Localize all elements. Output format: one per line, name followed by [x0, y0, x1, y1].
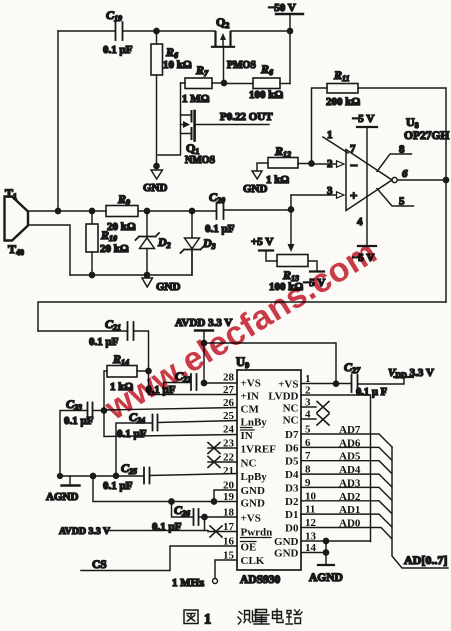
svg-text:5: 5	[399, 196, 405, 208]
output pin 6	[392, 177, 397, 182]
wire pin26 CM	[104, 408, 237, 411]
wire CLK pin15 to 1MHz	[215, 560, 237, 578]
resistor R6 10k	[156, 31, 158, 44]
node R14 left / C23	[101, 408, 106, 413]
wire left vertical from top rail to T1 node	[57, 31, 59, 211]
resistor R9 20k	[106, 206, 138, 217]
svg-text:AVDD 3.3 V: AVDD 3.3 V	[59, 526, 110, 537]
svg-text:Pwrdn: Pwrdn	[241, 527, 273, 539]
svg-text:2: 2	[305, 385, 311, 397]
wire top rail left of C19	[58, 30, 115, 32]
svg-text:AD3: AD3	[339, 477, 361, 489]
wire pin1 +VS	[301, 383, 351, 385]
svg-text:−50 V: −50 V	[268, 2, 296, 14]
caption glyph LU (road)	[286, 610, 302, 624]
AGND terminal at pins 13/14	[325, 541, 327, 565]
-5V terminal at pot	[308, 261, 317, 271]
wire pin3 jog to C20	[290, 195, 292, 210]
svg-text:20: 20	[223, 480, 235, 492]
svg-text:C26: C26	[174, 503, 190, 518]
svg-text:13: 13	[305, 531, 317, 543]
svg-text:AGND: AGND	[46, 491, 78, 503]
svg-text:18: 18	[223, 507, 235, 519]
svg-text:20 kΩ: 20 kΩ	[100, 243, 129, 255]
svg-text:R14: R14	[112, 352, 129, 367]
resistor R8 100k	[224, 83, 253, 85]
IC U9 ADS930 body	[237, 370, 301, 570]
svg-text:AD[0..7]: AD[0..7]	[404, 553, 447, 567]
svg-text:ADS930: ADS930	[240, 574, 281, 586]
svg-text:LnBy: LnBy	[241, 417, 268, 429]
svg-text:R6: R6	[165, 45, 178, 60]
svg-text:4: 4	[357, 216, 363, 228]
svg-text:C23: C23	[66, 397, 82, 412]
svg-text:+5 V: +5 V	[251, 236, 273, 248]
pin 8 lead	[377, 154, 412, 172]
svg-text:0.1 μF: 0.1 μF	[64, 415, 94, 427]
svg-text:D5: D5	[285, 456, 299, 468]
ground at bottom rail	[142, 278, 153, 287]
svg-text:D0: D0	[285, 523, 299, 535]
svg-text:C19: C19	[106, 8, 122, 23]
op-amp U8 triangle	[346, 150, 392, 211]
wire pin27 +IN	[149, 394, 238, 396]
wire AD0	[301, 528, 392, 540]
svg-text:22: 22	[223, 452, 235, 464]
svg-text:Q1: Q1	[186, 141, 199, 156]
svg-text:R7: R7	[195, 63, 209, 78]
svg-text:10 kΩ: 10 kΩ	[163, 59, 192, 71]
svg-text:D7: D7	[285, 429, 299, 441]
node R12 / R11	[309, 161, 314, 166]
node pin18/AVDD	[202, 514, 207, 519]
resistor R11 200k feedback	[327, 84, 358, 94]
svg-text:T1: T1	[5, 186, 17, 201]
svg-text:1: 1	[305, 373, 311, 385]
svg-text:AD1: AD1	[339, 504, 360, 516]
caption glyph LIANG (quantity)	[254, 610, 269, 625]
pin numbers and labels	[223, 372, 361, 562]
wire AD4	[301, 474, 392, 487]
node D3 top	[189, 208, 194, 213]
diode D2 zener	[146, 211, 148, 237]
svg-text:GND: GND	[243, 183, 268, 195]
svg-text:GND: GND	[156, 281, 181, 293]
underline LnBy pin25	[241, 427, 253, 429]
svg-text:5: 5	[305, 424, 311, 436]
watermark	[97, 230, 385, 430]
svg-text:20 kΩ: 20 kΩ	[107, 221, 136, 233]
svg-text:19: 19	[223, 491, 235, 503]
transistor Q2 PMOS	[212, 32, 234, 47]
no-connect X pin17	[208, 531, 237, 533]
svg-text:C21: C21	[105, 317, 121, 332]
svg-text:0.1 μF: 0.1 μF	[205, 223, 235, 235]
svg-text:16: 16	[223, 536, 235, 548]
svg-text:D2: D2	[285, 496, 299, 508]
svg-text:R6: R6	[260, 62, 273, 77]
capacitor C22	[204, 382, 237, 384]
node R7/R8/Q2 gate	[221, 80, 226, 85]
svg-text:17: 17	[223, 521, 235, 533]
svg-text:D2: D2	[157, 235, 171, 250]
wire to pin 2 with arrow	[298, 163, 337, 166]
svg-text:+VS: +VS	[241, 378, 261, 390]
svg-text:LpBy: LpBy	[241, 471, 268, 483]
svg-text:D1: D1	[285, 509, 298, 521]
node C23/AGND rail	[90, 473, 95, 478]
ground at R12	[257, 163, 268, 171]
node C24/AGND rail	[113, 473, 118, 478]
wire to pin 3 with arrow	[291, 194, 337, 196]
svg-text:U8: U8	[406, 115, 419, 130]
bus trunk	[392, 447, 448, 568]
overline IN pin24	[241, 429, 255, 431]
svg-text:11: 11	[305, 504, 315, 516]
node left wire	[55, 208, 60, 213]
wire pin24 IN	[104, 411, 237, 437]
svg-text:OE: OE	[241, 542, 257, 554]
svg-text:23: 23	[223, 438, 235, 450]
capacitor C19	[116, 22, 123, 40]
svg-text:1 MHz: 1 MHz	[172, 577, 204, 589]
svg-text:GND: GND	[143, 182, 168, 194]
wire top rail C19 to Q2	[123, 30, 215, 32]
svg-text:0.1 μF: 0.1 μF	[117, 428, 147, 440]
svg-text:T40: T40	[8, 242, 24, 257]
svg-text:24: 24	[223, 424, 235, 436]
diode D3 zener	[191, 211, 193, 238]
svg-text:NC: NC	[241, 458, 257, 470]
potentiometer R13 100k	[277, 255, 308, 267]
node R10 bottom	[89, 272, 94, 277]
wire T40 bottom lead	[28, 225, 70, 275]
wire P0.22 OUT	[196, 124, 269, 126]
svg-text:NMOS: NMOS	[185, 155, 215, 166]
svg-text:1: 1	[327, 129, 333, 141]
underline Pwrdn pin17	[241, 537, 272, 539]
svg-text:6: 6	[402, 168, 408, 180]
resistor R10 20k	[91, 211, 93, 224]
wire R9 to D2 D3 C20	[138, 210, 216, 212]
svg-text:C25: C25	[121, 461, 137, 476]
wire AGND rail / pin21 LpBy with C25	[59, 475, 144, 477]
svg-text:μ F: μ F	[372, 387, 387, 398]
svg-text:0.1 μF: 0.1 μF	[103, 44, 133, 56]
wire wiper drop with arrow	[290, 210, 292, 246]
svg-text:14: 14	[305, 542, 317, 554]
node pin19 tie	[211, 499, 216, 504]
caption glyph TU (figure)	[184, 610, 198, 624]
capacitor C27	[352, 375, 358, 392]
svg-text:+: +	[350, 188, 357, 203]
node -50V rail	[287, 28, 292, 33]
svg-text:10: 10	[305, 490, 317, 502]
svg-text:+VS: +VS	[278, 379, 298, 391]
wire pin14 GND	[301, 552, 326, 554]
wire R11 right to output node	[358, 88, 446, 302]
svg-text:0.1 μF: 0.1 μF	[103, 480, 133, 492]
no-connect X pin23	[208, 447, 237, 449]
svg-text:2: 2	[327, 158, 333, 170]
node R9/R10	[89, 208, 94, 213]
capacitor C21	[38, 330, 127, 332]
caption glyph DIAN (electric)	[273, 609, 284, 623]
capacitor C26	[172, 502, 193, 518]
svg-text:C27: C27	[344, 360, 361, 375]
svg-text:C20: C20	[209, 190, 225, 205]
svg-text:NC: NC	[283, 403, 299, 415]
svg-text:26: 26	[223, 397, 235, 409]
svg-text:1 kΩ: 1 kΩ	[266, 174, 289, 186]
supply rail -5V bottom	[358, 245, 376, 247]
svg-text:28: 28	[223, 372, 235, 384]
svg-text:GND: GND	[274, 536, 299, 548]
wire top rail Q2 to -50V node	[231, 30, 290, 32]
pin 5 lead	[377, 189, 414, 207]
wire AD6	[301, 447, 392, 460]
VDD 3.3V terminal	[394, 376, 413, 378]
svg-text:8: 8	[305, 464, 311, 476]
wire AD3	[301, 487, 392, 500]
svg-text:−: −	[350, 159, 358, 174]
AGND terminal	[69, 476, 71, 485]
svg-text:AD2: AD2	[339, 491, 361, 503]
node at C19 / R6	[154, 28, 159, 33]
overline OE pin16	[241, 541, 257, 543]
svg-text:IN: IN	[241, 430, 253, 442]
svg-text:12: 12	[305, 517, 317, 529]
svg-text:4: 4	[305, 409, 311, 421]
svg-text:8: 8	[399, 144, 405, 156]
svg-text:7: 7	[305, 450, 311, 462]
wire R11 left to inverting input	[312, 88, 328, 164]
no-connect X pin3	[301, 406, 316, 408]
node D2 top	[144, 208, 149, 213]
capacitor C24	[158, 421, 237, 423]
wire pin2 LVDD to pin13	[301, 395, 371, 542]
ground below R6	[154, 163, 159, 168]
svg-text:VDD 3.3 V: VDD 3.3 V	[388, 367, 434, 380]
resistor R7 1M	[185, 78, 212, 89]
svg-text:D4: D4	[285, 469, 299, 481]
node output/R11	[443, 177, 448, 182]
transducer T1	[5, 197, 29, 241]
svg-text:+IN: +IN	[241, 391, 260, 403]
svg-text:R9: R9	[117, 192, 130, 207]
svg-text:Q2: Q2	[216, 15, 229, 30]
svg-text:3: 3	[327, 185, 333, 197]
resistor R14 1k	[107, 366, 137, 378]
svg-text:CLK: CLK	[241, 555, 265, 567]
svg-text:15: 15	[223, 550, 235, 562]
node C26 tap	[169, 499, 174, 504]
svg-text:GND: GND	[274, 548, 299, 560]
node pin13	[323, 538, 328, 543]
wire -50V node down to R8	[289, 31, 291, 84]
svg-text:GND: GND	[241, 485, 266, 497]
capacitor C25	[144, 468, 150, 484]
svg-text:R12: R12	[274, 144, 291, 159]
wire T1 top lead	[28, 210, 106, 212]
svg-text:P0.22 OUT: P0.22 OUT	[220, 111, 273, 123]
svg-text:AD6: AD6	[339, 437, 361, 449]
svg-text:AD0: AD0	[339, 518, 361, 530]
svg-text:1: 1	[204, 612, 211, 628]
pin 1 lead	[323, 137, 348, 153]
svg-text:GND: GND	[241, 498, 266, 510]
svg-text:9: 9	[305, 477, 311, 489]
transistor Q1 NMOS	[158, 83, 181, 155]
wire AD2	[301, 501, 392, 514]
svg-text:21: 21	[223, 465, 234, 477]
svg-text:AGND: AGND	[309, 572, 343, 584]
svg-text:7: 7	[350, 143, 356, 155]
svg-text:CM: CM	[241, 404, 260, 416]
caption glyph CE (measure)	[238, 610, 256, 625]
wire pins 19/20 ground tie	[93, 476, 237, 502]
capacitor C20	[217, 203, 224, 219]
svg-text:1 MΩ: 1 MΩ	[182, 93, 210, 105]
resistor R12 1k	[268, 158, 298, 169]
svg-text:0.1: 0.1	[356, 387, 369, 398]
svg-text:100 kΩ: 100 kΩ	[249, 89, 283, 101]
node pin3 tee	[288, 207, 293, 212]
svg-text:+VS: +VS	[241, 513, 261, 525]
svg-text:AD7: AD7	[339, 424, 361, 436]
svg-text:R11: R11	[333, 68, 350, 83]
svg-text:OP27GH: OP27GH	[404, 130, 449, 142]
no-connect X pin4	[301, 418, 316, 420]
svg-text:1VREF: 1VREF	[241, 444, 277, 456]
svg-text:AD5: AD5	[339, 451, 361, 463]
wire AD7	[301, 434, 392, 447]
svg-text:0.1 μF: 0.1 μF	[89, 336, 119, 348]
svg-text:PMOS: PMOS	[227, 60, 256, 71]
wire AD5	[301, 461, 392, 474]
svg-text:6: 6	[305, 437, 311, 449]
svg-text:−5 V: −5 V	[352, 113, 374, 125]
svg-text:LVDD: LVDD	[268, 391, 298, 403]
no-connect X pin22	[208, 461, 237, 463]
svg-text:D3: D3	[285, 482, 299, 494]
svg-text:NC: NC	[283, 415, 299, 427]
svg-text:25: 25	[223, 410, 235, 422]
svg-text:AD4: AD4	[339, 464, 361, 476]
capacitor C23	[93, 410, 105, 412]
svg-text:D6: D6	[285, 442, 299, 454]
wire bottom rail	[70, 250, 192, 276]
svg-text:27: 27	[223, 384, 235, 396]
node R14 right	[146, 368, 151, 373]
svg-text:3: 3	[305, 397, 311, 409]
svg-text:CS: CS	[92, 559, 107, 571]
wire AD1	[301, 514, 392, 527]
wire output return rail	[38, 302, 446, 331]
wire AVDD rail to pin1	[204, 343, 336, 384]
svg-text:D3: D3	[202, 236, 216, 251]
node D2 bottom / GND	[144, 272, 149, 277]
svg-text:200 kΩ: 200 kΩ	[326, 96, 360, 108]
